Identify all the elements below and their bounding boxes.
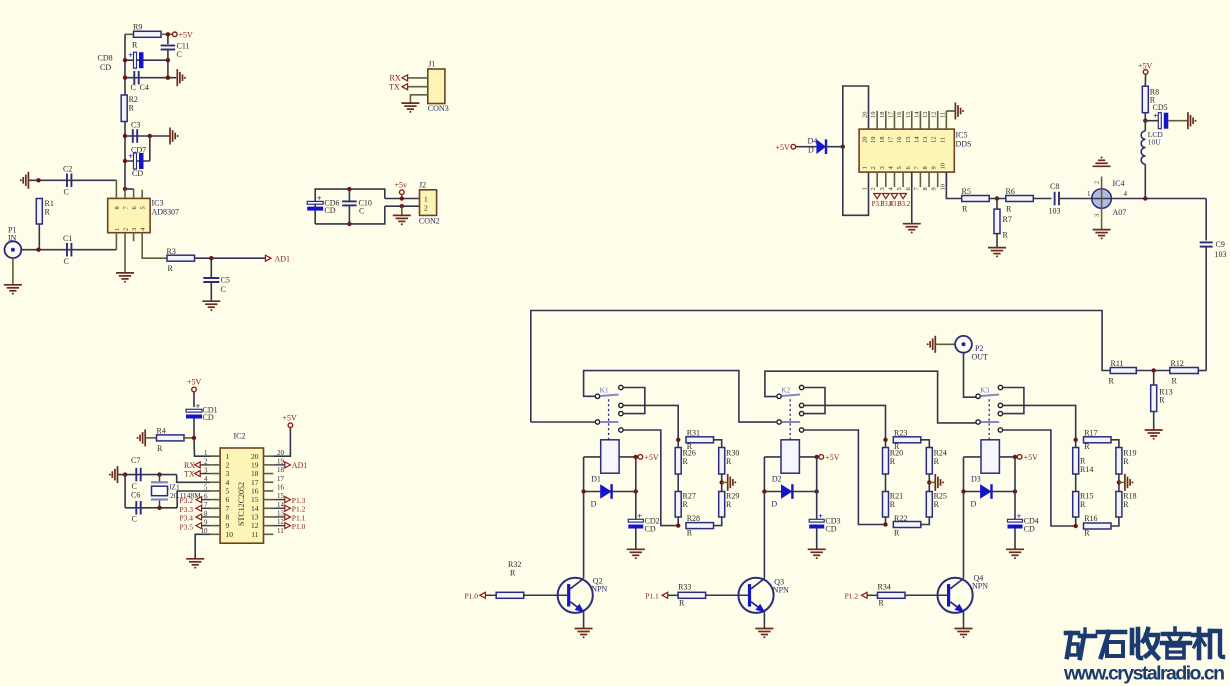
wire TX to J1 [408, 86, 428, 88]
relay K3 armature 1 [981, 395, 999, 397]
transistor Q2 NPN [558, 578, 593, 613]
IC3 pin 1 wire [115, 233, 117, 250]
IC2 right pin stubs [264, 455, 274, 457]
capacitor C1 [66, 243, 68, 257]
svg-text:OUT: OUT [972, 353, 989, 362]
wire R15 bottom [1075, 517, 1077, 526]
svg-text:R: R [726, 500, 732, 509]
capacitor C4 [133, 71, 135, 85]
wire pin7 to pin6 jumper [125, 188, 134, 190]
svg-text:R: R [1084, 442, 1090, 451]
diode D2 [764, 491, 816, 493]
wire K1 contact 2 to network top [623, 405, 678, 439]
capacitor CD7 electrolytic [134, 153, 137, 169]
svg-text:+5V: +5V [283, 414, 298, 423]
wire R3 to AD1 [195, 257, 266, 259]
svg-text:CD7: CD7 [131, 146, 146, 155]
ground left of C7 [117, 466, 119, 483]
resistor R23 [893, 437, 921, 443]
svg-text:C1: C1 [63, 234, 72, 243]
wire IC5 pin10 to R5 [946, 172, 961, 198]
svg-text:R: R [934, 457, 940, 466]
capacitor C8 [1054, 192, 1056, 206]
net P1.0 at IC2 pin12 [273, 525, 285, 527]
svg-text:P3.5: P3.5 [180, 522, 194, 531]
ground below IC4 [1093, 229, 1111, 231]
svg-text:TX: TX [389, 82, 400, 91]
capacitor CD8 electrolytic [134, 52, 137, 68]
resistor R7 [996, 199, 998, 210]
ground left of R4 [144, 429, 146, 446]
power +5V at K2 [819, 455, 824, 460]
svg-text:R11: R11 [1111, 359, 1124, 368]
wire CD1 to R4 junction [193, 419, 195, 438]
wire P1 to C1 line [21, 249, 116, 251]
svg-text:AD1: AD1 [275, 255, 291, 264]
svg-text:K1: K1 [600, 385, 609, 394]
connector J1 body [428, 69, 445, 104]
svg-text:C4: C4 [140, 83, 149, 92]
svg-text:D2: D2 [772, 475, 782, 484]
svg-text:D: D [771, 500, 777, 509]
svg-text:R: R [1080, 500, 1086, 509]
resistor R20 [885, 440, 887, 448]
ground at C3 line [169, 128, 171, 145]
wire K1 c1 to K2 left [584, 371, 777, 423]
relay K2 right contacts [799, 385, 803, 389]
relay K1 left contact 1 [595, 394, 599, 398]
svg-text:R23: R23 [894, 428, 907, 437]
IC3 pin 6 wire [133, 189, 135, 198]
svg-text:D: D [591, 500, 597, 509]
junction network bottom K2 [883, 522, 887, 526]
junction CD8 right [166, 58, 170, 62]
svg-text:2: 2 [226, 460, 230, 469]
svg-text:NPN: NPN [591, 585, 607, 594]
wire K2 coil right to +5V [799, 456, 819, 458]
wire CD7 line [125, 160, 150, 162]
capacitor CD2 electrolytic [628, 519, 643, 522]
svg-text:R33: R33 [678, 582, 691, 591]
svg-text:C5: C5 [221, 276, 230, 285]
svg-text:C6: C6 [131, 491, 140, 500]
svg-text:+5V: +5V [644, 453, 659, 462]
junction main wire at IC3 pin7 [123, 187, 127, 191]
junction network top K2 [883, 438, 887, 442]
power +5V above CD1 [192, 387, 197, 392]
wire K2 +5V column [816, 457, 818, 519]
svg-text:9: 9 [931, 166, 938, 169]
resistor R19 [1116, 448, 1122, 475]
wire J1 pin3 to ground [410, 95, 427, 103]
wire +5V to R8 [1144, 74, 1146, 86]
wire ground to R4 [145, 437, 156, 439]
relay K3 left contact 1 [976, 394, 980, 398]
resistor R3 [167, 255, 195, 261]
connector J2 body [420, 190, 437, 216]
svg-text:NPN: NPN [773, 585, 789, 594]
junction +5v at J2 [400, 196, 404, 200]
relay K2 armature 2 [782, 421, 800, 423]
svg-text:8: 8 [226, 513, 230, 522]
wire K2 contact 2 to network top [804, 405, 886, 439]
relay K2 armature 1 [782, 395, 800, 397]
ground below R13 [1145, 429, 1163, 431]
svg-text:2: 2 [424, 204, 428, 213]
svg-text:R6: R6 [1006, 187, 1015, 196]
svg-text:8: 8 [922, 187, 929, 190]
svg-text:+: + [818, 511, 823, 521]
svg-text:18: 18 [277, 466, 285, 474]
svg-text:+5V: +5V [187, 378, 202, 387]
IC3 pin 5 stub [141, 190, 143, 199]
svg-text:P1.1: P1.1 [645, 592, 659, 601]
capacitor CD4 electrolytic [1008, 519, 1023, 522]
resistor R33 [678, 592, 706, 598]
resistor R22 [893, 522, 921, 528]
svg-text:+5V: +5V [1138, 62, 1153, 71]
svg-text:+: + [1017, 511, 1022, 521]
relay K2 left contact 1 [777, 394, 781, 398]
wire R19 to R18 [1118, 474, 1120, 492]
resistor R17 [1084, 437, 1112, 443]
svg-text:R: R [168, 264, 174, 273]
svg-text:D1: D1 [591, 475, 601, 484]
svg-text:P1.2: P1.2 [292, 505, 306, 514]
svg-text:P1.1: P1.1 [292, 513, 306, 522]
svg-text:17: 17 [887, 111, 894, 118]
wire K3 left column [963, 457, 965, 578]
svg-text:17: 17 [887, 136, 894, 143]
svg-text:R: R [157, 444, 163, 453]
IC5 bottom pin stubs [876, 172, 878, 187]
wire C6 line [125, 507, 177, 509]
svg-text:14: 14 [251, 504, 259, 513]
junction C1 R1 bottom [36, 248, 40, 252]
svg-text:+5V: +5V [776, 143, 791, 152]
svg-text:19: 19 [870, 137, 877, 144]
ground at C4 line [176, 69, 178, 86]
svg-text:1: 1 [114, 228, 121, 231]
IC4 buffer circle [1092, 189, 1112, 209]
svg-text:2: 2 [870, 166, 877, 169]
svg-text:K3: K3 [980, 385, 989, 394]
junction CD7 left [123, 159, 127, 163]
wire pin5 jog [177, 491, 210, 508]
svg-text:6: 6 [226, 495, 230, 504]
wire R21 bottom [885, 517, 887, 525]
svg-text:R: R [879, 598, 885, 607]
wire CD5 to ground [1168, 120, 1188, 122]
svg-text:1: 1 [1087, 190, 1091, 198]
wire K3 contact 4 to network bottom [1003, 430, 1076, 526]
wire R9 to +5V [161, 33, 173, 35]
svg-text:+5v: +5v [395, 181, 408, 190]
power +5V at R9 [173, 32, 178, 37]
svg-text:STC12C2052: STC12C2052 [237, 482, 246, 526]
relay K3 left contact 2 [976, 420, 980, 424]
transistor Q3 NPN [738, 578, 773, 613]
svg-text:20: 20 [862, 112, 869, 119]
svg-text:C: C [64, 188, 69, 197]
svg-text:C: C [221, 285, 226, 294]
wire CD4 to ground [1014, 529, 1016, 550]
inductor L1 [1144, 121, 1146, 131]
wire R20 to R21 [885, 474, 887, 492]
capacitor C10 [342, 200, 357, 202]
svg-text:R5: R5 [962, 187, 971, 196]
port P1 coax [5, 241, 22, 258]
svg-text:1: 1 [862, 187, 869, 190]
power +5V at D4 [791, 144, 796, 149]
wire C5 stem [210, 258, 212, 277]
svg-text:CD8: CD8 [98, 54, 113, 63]
svg-text:15: 15 [905, 137, 912, 144]
svg-text:IC5: IC5 [956, 131, 968, 140]
net arrow AD1 out [265, 255, 271, 261]
svg-text:C: C [132, 515, 137, 524]
svg-text:R17: R17 [1084, 428, 1097, 437]
svg-text:17: 17 [251, 478, 259, 487]
ground below C5 [202, 300, 220, 302]
ground below J1 [401, 102, 419, 104]
relay K3 coil [981, 440, 999, 473]
ground below CD4 [1006, 548, 1024, 550]
wire R30 to R29 [721, 474, 723, 492]
capacitor C7 [135, 468, 137, 482]
svg-text:16: 16 [277, 484, 285, 492]
wire C8 to IC4 [1059, 198, 1092, 200]
wire K2 c1 to K3 left [765, 371, 976, 423]
junction C5 tap [209, 256, 213, 260]
wire loop left top [843, 86, 869, 147]
svg-text:P3.4: P3.4 [180, 514, 194, 523]
capacitor CD5 electrolytic [1158, 113, 1161, 129]
svg-text:19: 19 [870, 112, 877, 119]
ground below IC5 [903, 223, 921, 225]
svg-text:R: R [510, 568, 516, 577]
svg-text:P3.2: P3.2 [898, 200, 911, 208]
wire K2 left column [763, 457, 765, 578]
svg-text:TX: TX [184, 470, 195, 479]
wire K3 contact loop 1-3 [1003, 388, 1024, 414]
svg-text:R14: R14 [1080, 465, 1093, 474]
svg-text:CD: CD [825, 525, 836, 534]
resistor R14 [1075, 440, 1077, 448]
resistor R16 [1084, 523, 1112, 529]
capacitor C2 [66, 174, 68, 188]
wire R8 to CD5 junction [1144, 113, 1146, 121]
wire R22 right [921, 517, 930, 525]
svg-text:3: 3 [1094, 214, 1101, 217]
svg-text:R: R [679, 598, 685, 607]
resistor R5 [962, 196, 990, 202]
svg-text:12: 12 [931, 137, 938, 144]
ground at network K1 [727, 474, 729, 491]
svg-text:P1.0: P1.0 [292, 522, 306, 531]
svg-text:IC4: IC4 [1113, 179, 1125, 188]
net P1.2 at IC2 pin14 [273, 507, 285, 509]
junction crystal top [157, 472, 161, 476]
svg-text:15: 15 [251, 495, 259, 504]
IC2 body [220, 448, 263, 543]
svg-text:17: 17 [277, 475, 285, 483]
svg-text:9: 9 [931, 187, 938, 190]
svg-text:J1: J1 [428, 60, 435, 69]
wire P1.0 to R32 [485, 594, 496, 596]
wire R28 right [714, 517, 722, 526]
power +5V at K1 [638, 455, 643, 460]
svg-text:R: R [132, 40, 138, 49]
junction C3 left [123, 134, 127, 138]
capacitor C5 [203, 277, 219, 279]
svg-text:R22: R22 [894, 514, 907, 523]
IC3 pin 4 wire [142, 233, 167, 259]
junction K3 +5V column top [1013, 455, 1017, 459]
svg-text:10U: 10U [1148, 138, 1162, 147]
wire +5V rail to R9 [125, 33, 134, 35]
svg-text:C3: C3 [131, 121, 140, 130]
svg-text:R: R [683, 500, 689, 509]
svg-text:K2: K2 [781, 385, 790, 394]
wire R13 to ground [1153, 412, 1155, 431]
ground stem P1 [12, 258, 14, 285]
svg-text:16: 16 [896, 136, 903, 143]
resistor R25 [926, 492, 932, 518]
svg-text:3: 3 [131, 228, 138, 231]
resistor R28 [686, 523, 714, 529]
svg-text:+5V: +5V [825, 453, 840, 462]
capacitor CD1 electrolytic [186, 409, 202, 412]
svg-text:C: C [131, 83, 136, 92]
svg-text:+: + [1153, 111, 1158, 121]
svg-text:16: 16 [896, 111, 903, 118]
resistor R4 [157, 435, 185, 441]
svg-text:+5V: +5V [179, 31, 194, 40]
wire R33 to base [706, 594, 748, 596]
svg-text:D: D [971, 500, 977, 509]
svg-text:P1.3: P1.3 [292, 496, 306, 505]
svg-text:+5V: +5V [1024, 453, 1039, 462]
svg-text:R: R [890, 457, 896, 466]
wire P1.1 to R33 [668, 594, 678, 596]
power +5v at J2 [400, 190, 405, 195]
svg-text:11: 11 [939, 112, 946, 118]
junction R4 CD1 pin1 [192, 436, 196, 440]
svg-text:4: 4 [226, 478, 230, 487]
net AD1 at IC2 pin19 [273, 464, 285, 466]
net P3.5 at IC5 pin2 [874, 194, 881, 199]
svg-text:13: 13 [922, 137, 929, 144]
svg-text:RX: RX [390, 74, 401, 83]
wire R12 right to C9 branch [1198, 370, 1206, 372]
wire D4 to loop [826, 146, 843, 148]
resistor R31 [686, 437, 714, 443]
svg-text:P3.3: P3.3 [180, 505, 194, 514]
wire IC5 pin6 to ground [911, 172, 913, 224]
wire C10 stem top [348, 189, 350, 201]
svg-text:C: C [177, 50, 182, 59]
capacitor C6 [135, 501, 137, 515]
resistor R13 [1153, 371, 1155, 386]
diode D1 [584, 491, 636, 493]
svg-text:7: 7 [226, 504, 230, 513]
wire R14 to R15 [1075, 474, 1077, 492]
svg-text:C2: C2 [63, 165, 72, 174]
resistor R1 [36, 199, 42, 225]
resistor R12 [1170, 368, 1199, 374]
IC3 AD8307 body [108, 198, 150, 232]
svg-text:+: + [317, 193, 322, 203]
ground at IC5 pin11 [946, 110, 954, 112]
svg-text:+: + [196, 401, 201, 411]
wire R23 right [921, 440, 930, 448]
svg-text:R: R [1172, 376, 1178, 385]
svg-text:CD: CD [645, 525, 656, 534]
wire C9 down to R12 [1205, 247, 1207, 371]
IC3 pin 3 stub [133, 233, 135, 242]
svg-text:R7: R7 [1003, 215, 1012, 224]
wire K1 +5V column [635, 457, 637, 519]
resistor R27 [675, 492, 681, 518]
resistor R11 [1110, 368, 1136, 374]
junction CD8 left [123, 58, 127, 62]
wire R26 to R27 [677, 474, 679, 492]
wire C3 line [125, 135, 170, 137]
junction network top K1 [676, 438, 680, 442]
junction network mid K3 [1117, 480, 1121, 484]
svg-text:20.1148M: 20.1148M [170, 491, 201, 500]
wire CD8 line [125, 59, 168, 61]
svg-text:1: 1 [424, 195, 428, 204]
svg-text:R3: R3 [167, 247, 176, 256]
svg-text:R: R [726, 457, 732, 466]
wire K1 c2 to top bus [531, 421, 596, 423]
relay K2 coil [781, 440, 799, 473]
svg-text:12: 12 [251, 521, 259, 530]
ground below IC3 [116, 272, 134, 274]
svg-text:A07: A07 [1113, 208, 1127, 217]
wire J2 pin1 [385, 198, 420, 200]
junction ground at J2 [400, 204, 404, 208]
svg-text:5: 5 [226, 487, 230, 496]
svg-text:C8: C8 [1050, 182, 1059, 191]
junction C4 left [123, 76, 127, 80]
svg-text:NPN: NPN [972, 581, 988, 590]
ground below CD2 [627, 548, 645, 550]
capacitor CD6 electrolytic [307, 201, 323, 204]
svg-text:R: R [962, 205, 968, 214]
junction CD5 [1143, 119, 1147, 123]
relay K1 coil [601, 440, 619, 473]
junction network bottom K3 [1074, 524, 1078, 528]
svg-text:CD5: CD5 [1153, 103, 1168, 112]
svg-text:IC2: IC2 [234, 432, 246, 441]
wire C4 line [125, 77, 176, 79]
svg-text:10: 10 [939, 184, 946, 191]
svg-text:9: 9 [226, 521, 230, 530]
wire cap loop top [315, 189, 385, 224]
svg-text:R: R [1084, 528, 1090, 537]
svg-text:DDS: DDS [956, 140, 972, 149]
wire K2 contact 4 to network bottom [804, 430, 886, 525]
svg-text:R: R [1123, 457, 1129, 466]
relay K1 armature 1 [600, 395, 618, 397]
wire +5V to pin20 [273, 428, 290, 457]
svg-text:19: 19 [251, 460, 259, 469]
svg-text:11: 11 [277, 527, 284, 535]
resistor R9 [134, 31, 162, 37]
